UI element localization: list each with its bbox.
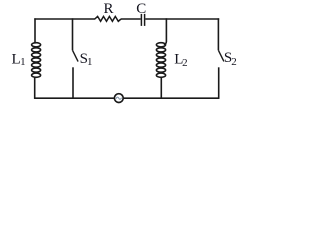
wire bottom rail right segment: [123, 97, 219, 99]
switch S1: [73, 18, 79, 99]
svg-text:2: 2: [182, 57, 188, 69]
wire top rail middle segment: [121, 18, 141, 20]
wire bottom rail left segment: [34, 97, 114, 99]
label S1: [80, 51, 93, 68]
svg-text:1: 1: [20, 56, 26, 68]
svg-text:R: R: [103, 1, 113, 17]
switch S2: [218, 18, 224, 99]
wire top rail right segment: [145, 18, 219, 20]
svg-text:1: 1: [87, 56, 93, 68]
wire top rail left segment: [34, 18, 95, 20]
resistor R: [95, 16, 121, 21]
label L1: [12, 51, 26, 68]
inductor L1: [32, 18, 41, 99]
label L2: [174, 52, 187, 69]
svg-text:2: 2: [231, 56, 237, 68]
AC source: [114, 94, 123, 103]
label S2: [224, 50, 237, 68]
svg-text:C: C: [136, 1, 146, 17]
inductor L2: [156, 18, 166, 99]
capacitor C: [141, 14, 144, 26]
